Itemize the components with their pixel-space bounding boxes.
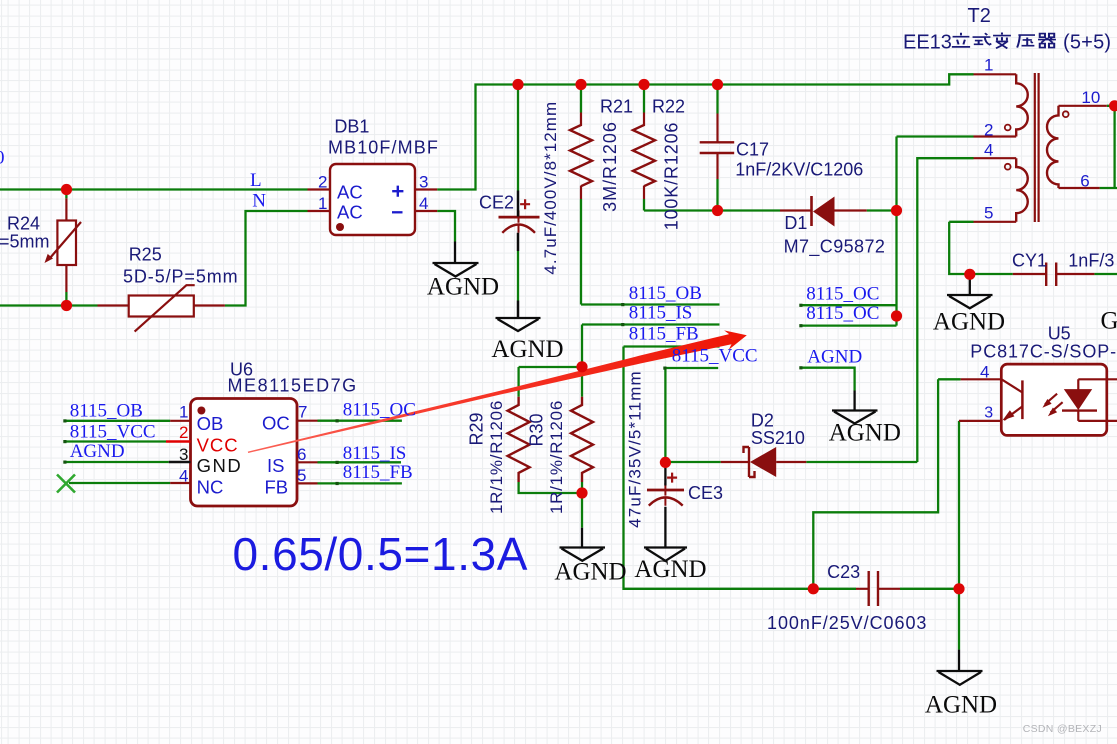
svg-text:100nF/25V/C0603: 100nF/25V/C0603 — [767, 613, 927, 633]
svg-text:8115_OB: 8115_OB — [629, 283, 702, 304]
svg-text:FB: FB — [265, 477, 289, 498]
svg-text:2: 2 — [179, 423, 188, 442]
svg-text:MB10F/MBF: MB10F/MBF — [328, 138, 439, 158]
svg-text:0: 0 — [0, 148, 5, 169]
svg-text:5: 5 — [297, 466, 306, 485]
svg-text:1R/1%/R1206: 1R/1%/R1206 — [487, 400, 506, 514]
svg-text:AGND: AGND — [70, 441, 125, 462]
svg-text:R29: R29 — [467, 412, 487, 445]
svg-text:47uF/35V/5*11mm: 47uF/35V/5*11mm — [626, 370, 645, 528]
svg-text:R30: R30 — [527, 413, 547, 446]
svg-text:8115_OC: 8115_OC — [806, 303, 879, 324]
svg-text:4: 4 — [984, 141, 993, 160]
svg-text:8115_FB: 8115_FB — [629, 324, 699, 345]
svg-text:AGND: AGND — [634, 556, 706, 583]
svg-text:M7_C95872: M7_C95872 — [784, 237, 886, 258]
svg-text:U5: U5 — [1048, 324, 1071, 344]
svg-text:AGND: AGND — [807, 346, 862, 367]
svg-text:DB1: DB1 — [334, 117, 369, 137]
svg-text:8115_OC: 8115_OC — [806, 283, 879, 304]
svg-text:1R/1%/R1206: 1R/1%/R1206 — [547, 400, 566, 514]
svg-text:CE2: CE2 — [479, 193, 514, 213]
svg-text:2: 2 — [984, 120, 993, 139]
svg-text:6: 6 — [1080, 172, 1089, 191]
svg-text:T2: T2 — [968, 5, 991, 27]
svg-text:OC: OC — [262, 413, 290, 434]
svg-text:4: 4 — [179, 467, 188, 486]
svg-text:PC817C-S/SOP-4: PC817C-S/SOP-4 — [970, 342, 1117, 362]
svg-text:8115_OC: 8115_OC — [343, 400, 416, 421]
svg-text:IS: IS — [267, 455, 284, 476]
svg-text:NC: NC — [197, 477, 224, 498]
svg-text:4.7uF/400V/8*12mm: 4.7uF/400V/8*12mm — [541, 101, 560, 275]
svg-text:8115_OB: 8115_OB — [70, 401, 143, 422]
svg-text:C23: C23 — [827, 562, 860, 582]
svg-text:L: L — [250, 170, 262, 191]
svg-text:8115_FB: 8115_FB — [343, 462, 413, 483]
svg-text:5: 5 — [984, 204, 993, 223]
svg-text:6: 6 — [297, 445, 306, 464]
svg-text:1nF/2KV/C1206: 1nF/2KV/C1206 — [735, 160, 863, 180]
svg-text:7: 7 — [298, 403, 307, 422]
svg-text:=5mm: =5mm — [0, 232, 50, 252]
svg-text:R21: R21 — [600, 96, 633, 116]
svg-text:R22: R22 — [652, 96, 685, 116]
svg-text:AGND: AGND — [829, 420, 901, 447]
svg-text:1: 1 — [984, 56, 993, 75]
svg-text:OB: OB — [197, 413, 224, 434]
svg-text:CE3: CE3 — [688, 483, 723, 503]
svg-text:(5+5): (5+5) — [1063, 32, 1111, 54]
svg-text:G: G — [1101, 308, 1117, 335]
svg-text:ME8115ED7G: ME8115ED7G — [228, 376, 358, 396]
svg-text:10: 10 — [1081, 88, 1100, 107]
svg-text:4: 4 — [980, 363, 989, 382]
svg-text:GND: GND — [197, 455, 243, 476]
svg-text:D1: D1 — [784, 213, 807, 233]
svg-text:AGND: AGND — [933, 309, 1005, 336]
svg-text:AC: AC — [337, 181, 363, 202]
svg-text:R24: R24 — [7, 214, 40, 234]
svg-text:5D-5/P=5mm: 5D-5/P=5mm — [123, 267, 239, 287]
svg-text:1nF/3: 1nF/3 — [1068, 251, 1114, 271]
svg-text:VCC: VCC — [197, 434, 239, 455]
svg-text:3: 3 — [179, 445, 188, 464]
svg-text:0.65/0.5=1.3A: 0.65/0.5=1.3A — [233, 528, 529, 580]
svg-text:CY1: CY1 — [1012, 251, 1047, 271]
svg-text:2: 2 — [318, 173, 327, 192]
svg-text:AGND: AGND — [491, 336, 563, 363]
svg-text:R25: R25 — [129, 245, 162, 265]
svg-text:AC: AC — [337, 202, 363, 223]
svg-text:C17: C17 — [736, 140, 769, 160]
svg-text:1: 1 — [318, 194, 327, 213]
svg-text:1: 1 — [179, 403, 188, 422]
svg-text:3: 3 — [984, 405, 993, 422]
svg-text:N: N — [252, 191, 266, 212]
svg-text:AGND: AGND — [925, 692, 997, 719]
svg-text:EE13: EE13 — [903, 32, 952, 54]
svg-text:3M/R1206: 3M/R1206 — [600, 121, 620, 212]
svg-text:4: 4 — [419, 194, 428, 213]
svg-text:100K/R1206: 100K/R1206 — [662, 122, 682, 231]
svg-text:AGND: AGND — [427, 274, 499, 301]
svg-text:8115_VCC: 8115_VCC — [70, 421, 156, 442]
svg-text:SS210: SS210 — [751, 428, 805, 448]
svg-text:8115_VCC: 8115_VCC — [672, 346, 758, 367]
svg-text:AGND: AGND — [554, 559, 626, 586]
svg-text:8115_IS: 8115_IS — [343, 443, 407, 464]
svg-text:3: 3 — [419, 173, 428, 192]
svg-text:8115_IS: 8115_IS — [629, 303, 693, 324]
